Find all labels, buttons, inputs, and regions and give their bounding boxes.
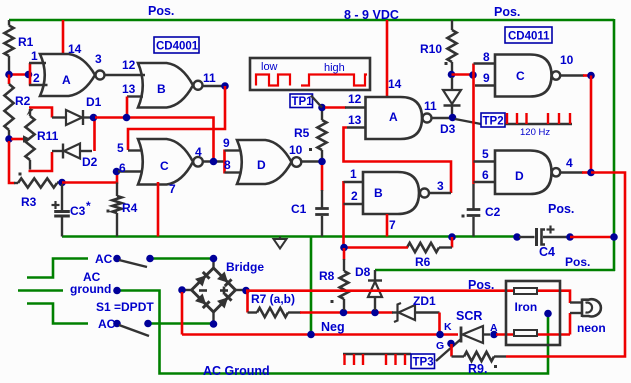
node junction green-neg bbox=[307, 331, 315, 339]
wire Pos DC line (red) bbox=[246, 291, 570, 303]
label D1 bbox=[86, 95, 102, 109]
node switch top left bbox=[113, 255, 121, 263]
svg-text:9: 9 bbox=[223, 136, 230, 150]
resistor R10 bbox=[447, 20, 456, 71]
label R6 bbox=[415, 255, 431, 269]
node junction R3/C3 bbox=[58, 179, 66, 187]
wire Pos. line to D8 (green) bbox=[375, 269, 615, 272]
wire Neg drop (red) bbox=[181, 292, 184, 335]
neon lamp bbox=[582, 299, 601, 318]
node junction NOR-B out bbox=[221, 82, 229, 90]
label Pos mid right bbox=[548, 202, 574, 216]
svg-text:Pos.: Pos. bbox=[148, 4, 174, 18]
wire Neg line (red) bbox=[182, 333, 458, 336]
node junction D1/D2 bbox=[90, 114, 98, 122]
node junction R8 top bbox=[340, 244, 348, 252]
label pin 7 norc bbox=[169, 182, 176, 196]
label D8 bbox=[355, 265, 371, 279]
node junction pin2 bbox=[25, 71, 33, 79]
wire node1 to pin2 (red) bbox=[9, 73, 29, 76]
diode D8 bbox=[368, 270, 382, 310]
wire out4 to R9 (red) bbox=[506, 173, 625, 357]
svg-text:D: D bbox=[515, 169, 524, 183]
wire pin7 NAND-B (red) bbox=[386, 214, 389, 237]
wire pin12 NAND-A (red) bbox=[325, 106, 346, 109]
label 8-9 VDC bbox=[344, 8, 399, 22]
svg-text:Neg: Neg bbox=[321, 320, 345, 334]
label pin7 nandb bbox=[389, 218, 396, 232]
label pin3 nandb bbox=[437, 179, 444, 193]
wire pin9 stub bbox=[225, 149, 241, 151]
label A nand bbox=[389, 110, 398, 124]
node iron sensor bbox=[544, 310, 552, 318]
label Pos green line bbox=[565, 255, 590, 269]
wire bridge top stub bbox=[212, 259, 214, 269]
wire NAND-D out bbox=[560, 171, 583, 173]
svg-text:7: 7 bbox=[169, 182, 176, 196]
svg-text:R11: R11 bbox=[37, 129, 59, 143]
svg-text:7: 7 bbox=[389, 218, 396, 232]
svg-text:10: 10 bbox=[560, 53, 574, 67]
NAND gate C bbox=[495, 55, 560, 97]
label C nand bbox=[516, 69, 525, 83]
decor dot b bbox=[107, 210, 110, 213]
TP3 comb baseline bbox=[343, 353, 411, 355]
diode D1 bbox=[52, 110, 91, 125]
wire switch to bridge bottom (green) bbox=[151, 322, 214, 325]
decor dot r8 bbox=[331, 300, 334, 303]
svg-text:R7 (a,b): R7 (a,b) bbox=[251, 292, 295, 306]
NOR-D input tie (red) bbox=[223, 150, 226, 174]
TP2 probe line bbox=[455, 119, 481, 124]
node junction rail C4 bbox=[513, 233, 521, 241]
wire pin5 stub nandd bbox=[474, 160, 497, 162]
wire pin9 stub nandc bbox=[475, 84, 496, 86]
svg-text:9: 9 bbox=[483, 71, 490, 85]
node junction R8 bottom bbox=[340, 309, 348, 317]
TP3 comb ticks (red) bbox=[345, 354, 406, 365]
NAND gate A bbox=[366, 97, 432, 139]
SCR gate line bbox=[436, 339, 461, 361]
wire C4 to green (red) bbox=[570, 236, 614, 239]
svg-text:D: D bbox=[257, 158, 266, 172]
label CD4011 box bbox=[505, 27, 552, 43]
NOR gate D bbox=[237, 140, 301, 184]
svg-text:11: 11 bbox=[203, 71, 216, 85]
node junction left rail B bbox=[5, 135, 13, 143]
wiper arrowhead bbox=[23, 135, 31, 143]
node junction pin13 branch bbox=[123, 114, 131, 122]
wire NOR-A out to NOR-B pin12 bbox=[105, 74, 146, 76]
svg-text:Bridge: Bridge bbox=[226, 260, 264, 274]
wire left rail to R3 (red) bbox=[9, 141, 15, 183]
svg-text:Pos.: Pos. bbox=[565, 255, 590, 269]
diode D3 bbox=[443, 77, 461, 114]
label pin 8 bbox=[224, 158, 231, 172]
decor dot r9 bbox=[494, 365, 497, 368]
wire R10 node east (red) bbox=[452, 73, 474, 76]
node switch top right bbox=[146, 255, 154, 263]
label pin10 nandc bbox=[560, 53, 574, 67]
node junction 120Hz bbox=[469, 71, 477, 79]
svg-text:A: A bbox=[389, 110, 398, 124]
svg-text:1: 1 bbox=[350, 167, 357, 181]
wire bridge right stub bbox=[235, 289, 244, 291]
svg-text:14: 14 bbox=[388, 77, 402, 91]
TP1 box bbox=[290, 94, 313, 108]
label pin4 nandd bbox=[566, 156, 573, 170]
wire pin7 NOR-C (red) bbox=[157, 182, 160, 237]
wire R7 riser (red) bbox=[246, 292, 249, 313]
NOR gate A (CD4001) bbox=[40, 54, 105, 96]
wire NAND-D out red tip bbox=[582, 171, 591, 174]
node junction NOR-C out bbox=[210, 158, 218, 166]
label R3 bbox=[21, 195, 37, 209]
label Pos dc bbox=[468, 278, 494, 292]
svg-text:Pos.: Pos. bbox=[548, 202, 574, 216]
wire pin13 stub bbox=[127, 95, 143, 97]
svg-text:neon: neon bbox=[577, 321, 606, 335]
resistor R5 bbox=[317, 110, 326, 158]
wire NOR-C out bbox=[203, 160, 227, 162]
node bridge top bbox=[210, 255, 218, 263]
neon top lead bbox=[570, 301, 581, 303]
svg-text:2: 2 bbox=[351, 189, 358, 203]
wire pin12 NAND-A (black) bbox=[345, 106, 366, 108]
label Neg bbox=[321, 320, 345, 334]
svg-text:5: 5 bbox=[482, 147, 489, 161]
label K bbox=[444, 321, 452, 333]
label R8 bbox=[319, 269, 335, 283]
svg-text:SCR: SCR bbox=[456, 309, 482, 323]
svg-text:3: 3 bbox=[437, 179, 444, 193]
label pin14 nanda bbox=[388, 77, 402, 91]
transistor SCR bbox=[461, 326, 490, 343]
label AC ground 1 bbox=[83, 270, 101, 284]
wire anode to iron (red) bbox=[496, 333, 570, 336]
wire NAND-B out to pin13 (red) bbox=[344, 128, 452, 194]
wire pin13 riser (red) bbox=[126, 97, 129, 117]
resistor R7 bbox=[248, 308, 302, 317]
TP2 comb ticks (red) bbox=[507, 113, 570, 124]
label pin 1 bbox=[31, 49, 38, 63]
wire switch to bridge top (green) bbox=[153, 257, 214, 260]
label Bridge bbox=[226, 260, 264, 274]
node junction out10 bbox=[587, 72, 595, 80]
svg-text:D2: D2 bbox=[82, 155, 98, 169]
resistor R3 bbox=[14, 178, 59, 187]
svg-text:4: 4 bbox=[566, 156, 573, 170]
TP3 box bbox=[411, 354, 435, 369]
label C gate bbox=[160, 159, 169, 173]
label pin 4 bbox=[195, 145, 202, 159]
wire right side Pos. drop (green) bbox=[613, 19, 616, 271]
svg-text:R10: R10 bbox=[420, 42, 442, 56]
label pin 12 bbox=[122, 58, 136, 72]
svg-text:R3: R3 bbox=[21, 195, 37, 209]
wire ZD1 drop (red) bbox=[438, 313, 441, 335]
svg-text:12: 12 bbox=[348, 92, 362, 106]
resistor R6 bbox=[407, 243, 452, 252]
label R9 bbox=[468, 362, 487, 376]
label pin 13 bbox=[122, 82, 136, 96]
svg-text:K: K bbox=[444, 321, 452, 333]
node junction green C4 bbox=[610, 233, 618, 241]
node junction C4 east bbox=[566, 233, 574, 241]
svg-text:S1 =DPDT: S1 =DPDT bbox=[96, 300, 154, 314]
label AC ground 2 bbox=[70, 282, 111, 296]
label low bbox=[261, 61, 278, 73]
capacitor C2 bbox=[467, 184, 481, 237]
resistor R9 bbox=[452, 352, 507, 361]
NOR gate B bbox=[138, 63, 203, 108]
label R11 bbox=[37, 129, 59, 143]
wire D2 to D1 node (red) bbox=[93, 118, 96, 152]
wire pin1 stub bbox=[29, 62, 46, 64]
svg-text:Iron: Iron bbox=[515, 300, 538, 314]
svg-text:R1: R1 bbox=[18, 35, 34, 49]
capacitor C3 bbox=[54, 184, 70, 237]
wire R5 to C1 (red) bbox=[321, 165, 324, 191]
label D gate bbox=[257, 158, 266, 172]
wire R11 bottom to D2 (red) bbox=[29, 152, 53, 171]
label pin 6 bbox=[119, 161, 126, 175]
svg-text:R4: R4 bbox=[122, 201, 138, 215]
label pin8 nandc bbox=[483, 50, 490, 64]
switch blade bottom bbox=[119, 325, 149, 336]
label C4 plus bbox=[547, 226, 555, 234]
wire NOR-D out bbox=[302, 160, 323, 162]
label G bbox=[436, 340, 444, 352]
decor dot r5 bbox=[309, 148, 312, 151]
wire phase line (red) bbox=[300, 311, 393, 314]
label pin1 nandb bbox=[350, 167, 357, 181]
svg-text:ground: ground bbox=[70, 282, 111, 296]
svg-text:C2: C2 bbox=[485, 205, 501, 219]
label R2 bbox=[15, 94, 31, 108]
label R1 bbox=[18, 35, 34, 49]
wire bridge bottom stub bbox=[212, 312, 214, 321]
svg-text:Pos.: Pos. bbox=[468, 278, 494, 292]
bridge minus bbox=[199, 289, 207, 292]
label B nand bbox=[374, 186, 383, 200]
wire left rail seg (red) bbox=[8, 75, 11, 85]
decor dot r10 bbox=[445, 62, 448, 65]
label C3* bbox=[70, 199, 91, 218]
svg-text:AC: AC bbox=[98, 317, 116, 331]
iron heater contact top bbox=[514, 288, 537, 294]
svg-text:Pos.: Pos. bbox=[494, 5, 520, 19]
label S1 DPDT bbox=[96, 300, 154, 314]
wire 120Hz column (red) bbox=[472, 64, 475, 185]
node junction R10 bbox=[448, 71, 456, 79]
wire AC plug upper arm (green) bbox=[27, 259, 88, 278]
node bridge right bbox=[242, 287, 250, 295]
label R5 bbox=[294, 126, 310, 140]
wire neon drop (red) bbox=[569, 313, 572, 335]
wire signal ground rail (green) bbox=[62, 235, 518, 238]
node switch ground bbox=[113, 287, 121, 295]
wire pin6 stub nandd bbox=[474, 181, 497, 183]
neon bottom lead bbox=[570, 312, 581, 314]
label pin11 nanda bbox=[424, 99, 437, 113]
svg-text:12: 12 bbox=[122, 58, 136, 72]
svg-text:CD4011: CD4011 bbox=[508, 31, 550, 43]
svg-text:*: * bbox=[86, 199, 91, 213]
svg-text:5: 5 bbox=[117, 141, 124, 155]
svg-text:D3: D3 bbox=[440, 122, 456, 136]
label SCR bbox=[456, 309, 482, 323]
label CD4001 box bbox=[154, 37, 199, 53]
wire R6 riser (red) bbox=[451, 237, 454, 248]
svg-text:CD4001: CD4001 bbox=[156, 41, 199, 53]
svg-text:A: A bbox=[62, 73, 71, 87]
svg-text:R6: R6 bbox=[415, 255, 431, 269]
wire pin8 stub nandc bbox=[474, 62, 497, 64]
iron box bbox=[506, 281, 560, 345]
svg-text:G: G bbox=[436, 340, 444, 352]
label pin9 nandc bbox=[483, 71, 490, 85]
wire ground rail to Neg line (green) bbox=[310, 237, 313, 335]
label R4 bbox=[122, 201, 138, 215]
svg-text:13: 13 bbox=[122, 82, 136, 96]
label A bbox=[62, 73, 71, 87]
label B bbox=[157, 82, 166, 96]
label ZD1 bbox=[413, 294, 436, 308]
wire NAND-B output bbox=[429, 192, 451, 194]
TP2 box bbox=[481, 113, 505, 128]
ground arrow bbox=[274, 237, 287, 249]
label high bbox=[324, 62, 345, 74]
label 120 Hz bbox=[520, 127, 550, 138]
wire pin1 stub nandb bbox=[344, 181, 365, 183]
capacitor C1 bbox=[315, 190, 329, 237]
wire gate to R9 (red) bbox=[450, 344, 453, 357]
svg-text:R8: R8 bbox=[319, 269, 335, 283]
node junction R5/C1 bbox=[318, 158, 326, 166]
TP1 probe line bbox=[311, 96, 322, 108]
zener ZD1 bbox=[392, 303, 440, 322]
wire R11 top to D1 (red) bbox=[29, 108, 52, 118]
wire pin14 NOR-A (red) bbox=[62, 20, 65, 55]
label pin2 nandb bbox=[351, 189, 358, 203]
label D2 bbox=[82, 155, 98, 169]
waveform box bbox=[250, 58, 370, 90]
svg-text:B: B bbox=[157, 82, 166, 96]
node junction out4 bbox=[587, 169, 595, 177]
svg-text:TP3: TP3 bbox=[413, 357, 434, 369]
wire pin5 stub bbox=[128, 149, 141, 151]
label D nand bbox=[515, 169, 524, 183]
node junction rail R6 bbox=[448, 233, 456, 241]
svg-text:6: 6 bbox=[482, 168, 489, 182]
svg-text:C1: C1 bbox=[291, 202, 307, 216]
wire pin6 stub bbox=[118, 170, 141, 172]
label D3 bbox=[440, 122, 456, 136]
wire D1 node east (red) bbox=[95, 118, 214, 161]
node junction pin6 bbox=[113, 168, 121, 176]
svg-text:B: B bbox=[374, 186, 383, 200]
label AC bottom bbox=[98, 317, 116, 331]
bridge plus bbox=[220, 287, 228, 295]
svg-text:AC Ground: AC Ground bbox=[203, 364, 270, 378]
label C4 bbox=[539, 245, 555, 259]
bridge rectifier bbox=[192, 268, 236, 312]
node switch bottom right bbox=[144, 320, 152, 328]
svg-text:TP2: TP2 bbox=[483, 116, 504, 128]
svg-text:low: low bbox=[261, 61, 278, 73]
svg-text:8: 8 bbox=[483, 50, 490, 64]
switch blade top bbox=[119, 260, 147, 267]
node bridge bottom bbox=[210, 320, 218, 328]
svg-text:R2: R2 bbox=[15, 94, 31, 108]
label AC top bbox=[95, 252, 113, 266]
label Pos top left bbox=[148, 4, 174, 18]
waveform low trace (red) bbox=[256, 75, 290, 86]
label R7 bbox=[251, 292, 295, 306]
wire out10 to out4 (red) bbox=[590, 76, 593, 173]
iron heater contact bottom bbox=[514, 330, 537, 336]
label pin 9 bbox=[223, 136, 230, 150]
node SCR gate bbox=[447, 340, 455, 348]
node bridge left bbox=[178, 286, 186, 294]
waveform high trace (red) bbox=[301, 75, 367, 86]
wire R6 west (red) bbox=[344, 246, 408, 249]
svg-text:6: 6 bbox=[119, 161, 126, 175]
wire AC ground run (green) bbox=[120, 291, 548, 374]
label pin6 nandd bbox=[482, 168, 489, 182]
svg-text:13: 13 bbox=[348, 113, 362, 127]
wire NAND-C out bbox=[560, 74, 584, 76]
wire Pos. top rail (green) bbox=[9, 19, 614, 22]
wire R11 wiper (red) bbox=[11, 138, 24, 141]
label C1 bbox=[291, 202, 307, 216]
svg-text:11: 11 bbox=[424, 99, 437, 113]
decor dot a bbox=[19, 173, 22, 176]
wire R3 node to pin6 column (red) bbox=[62, 172, 117, 183]
label A scr bbox=[490, 322, 498, 334]
svg-text:R9.: R9. bbox=[468, 362, 487, 376]
svg-text:R5: R5 bbox=[294, 126, 310, 140]
label pin12 nanda bbox=[348, 92, 362, 106]
resistor R8 bbox=[340, 248, 349, 310]
NAND gate B bbox=[363, 172, 429, 214]
svg-text:AC: AC bbox=[95, 252, 113, 266]
svg-text:TP1: TP1 bbox=[292, 96, 314, 108]
label Iron bbox=[515, 300, 538, 314]
svg-text:C4: C4 bbox=[539, 245, 555, 259]
wire pin13 stub nanda bbox=[347, 126, 366, 128]
resistor R1 bbox=[4, 20, 13, 72]
wire AC plug middle prong (green) bbox=[18, 289, 63, 292]
NAND-B input tie (red) bbox=[342, 181, 345, 248]
wire pin2 stub bbox=[29, 84, 48, 86]
diode D2 bbox=[52, 144, 92, 159]
node junction ZD1 bbox=[436, 331, 444, 339]
wire pin8 stub bbox=[225, 171, 241, 173]
wire AC plug lower arm (green) bbox=[27, 304, 88, 324]
svg-text:ZD1: ZD1 bbox=[413, 294, 436, 308]
node junction D8 bottom bbox=[371, 309, 379, 317]
wire bridge left stub bbox=[185, 289, 192, 291]
label pin13 nanda bbox=[348, 113, 362, 127]
node junction pin11 nanda bbox=[449, 114, 457, 122]
wire pin2 stub nandb bbox=[344, 203, 365, 205]
label Pos top right bbox=[494, 5, 520, 19]
svg-text:2: 2 bbox=[33, 71, 40, 85]
svg-text:C: C bbox=[516, 69, 525, 83]
label pin 5 bbox=[117, 141, 124, 155]
